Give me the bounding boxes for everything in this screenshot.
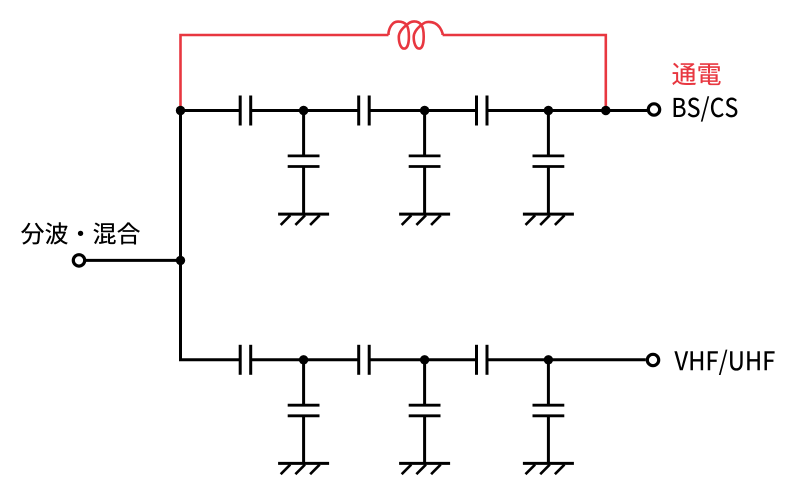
capacitor C3 [477,96,488,126]
wire top shunt 3 upper [547,111,550,156]
wire red bypass left segment [181,35,389,108]
wire bottom row segment 3 [369,358,476,361]
capacitor C12 [533,405,565,416]
wire top row segment 3 [369,109,476,112]
wire top shunt 2 lower [423,167,426,215]
terminal BS/CS output [648,104,659,115]
wire top shunt 3 lower [547,167,550,215]
wire top shunt 1 upper [302,111,305,156]
ground [399,214,450,225]
node input junction [176,256,185,265]
capacitor C1 [240,96,251,126]
capacitor C8 [359,345,370,375]
node bottom shunt 2 [420,355,429,364]
ground [278,214,329,225]
node top-left junction [176,106,185,115]
terminal VHF/UHF output [647,354,658,365]
wire top row segment 4 [487,109,647,112]
inductor L1 [389,21,443,48]
node bypass junction [601,106,610,115]
wire bottom shunt 3 upper [547,360,550,405]
capacitor C10 [288,405,320,416]
wire input to bus [86,259,181,262]
wire top shunt 2 upper [423,111,426,156]
wire bottom row segment 4 [487,358,646,361]
node bottom shunt 1 [299,355,308,364]
wire top row segment 1 [181,109,241,112]
wire bottom shunt 2 upper [423,360,426,405]
node bottom shunt 3 [544,355,553,364]
wire bottom row segment 1 [179,358,240,361]
ground [523,214,574,225]
wire bus vertical [179,111,182,360]
capacitor C9 [477,345,488,375]
ground [523,463,574,474]
wire red bypass right segment [443,35,606,108]
capacitor C5 [409,156,441,167]
node top shunt 2 [420,106,429,115]
capacitor C11 [409,405,441,416]
wire bottom shunt 1 upper [302,360,305,405]
node top shunt 3 [544,106,553,115]
label VHF/UHF [674,350,774,375]
wire bottom shunt 3 lower [547,416,550,464]
wire top shunt 1 lower [302,167,305,215]
ground [399,463,450,474]
node top shunt 1 [299,106,308,115]
label 分波・混合 [21,222,140,244]
label 通電 [672,63,720,85]
wire bottom shunt 2 lower [423,416,426,464]
wire bottom row segment 2 [251,358,359,361]
capacitor C7 [240,345,251,375]
ground [278,463,329,474]
capacitor C6 [533,156,565,167]
capacitor C4 [288,156,320,167]
capacitor C2 [359,96,370,126]
wire top row segment 2 [251,109,359,112]
terminal input 分波・混合 [73,255,84,266]
wire bottom shunt 1 lower [302,416,305,464]
label BS/CS [674,96,738,121]
